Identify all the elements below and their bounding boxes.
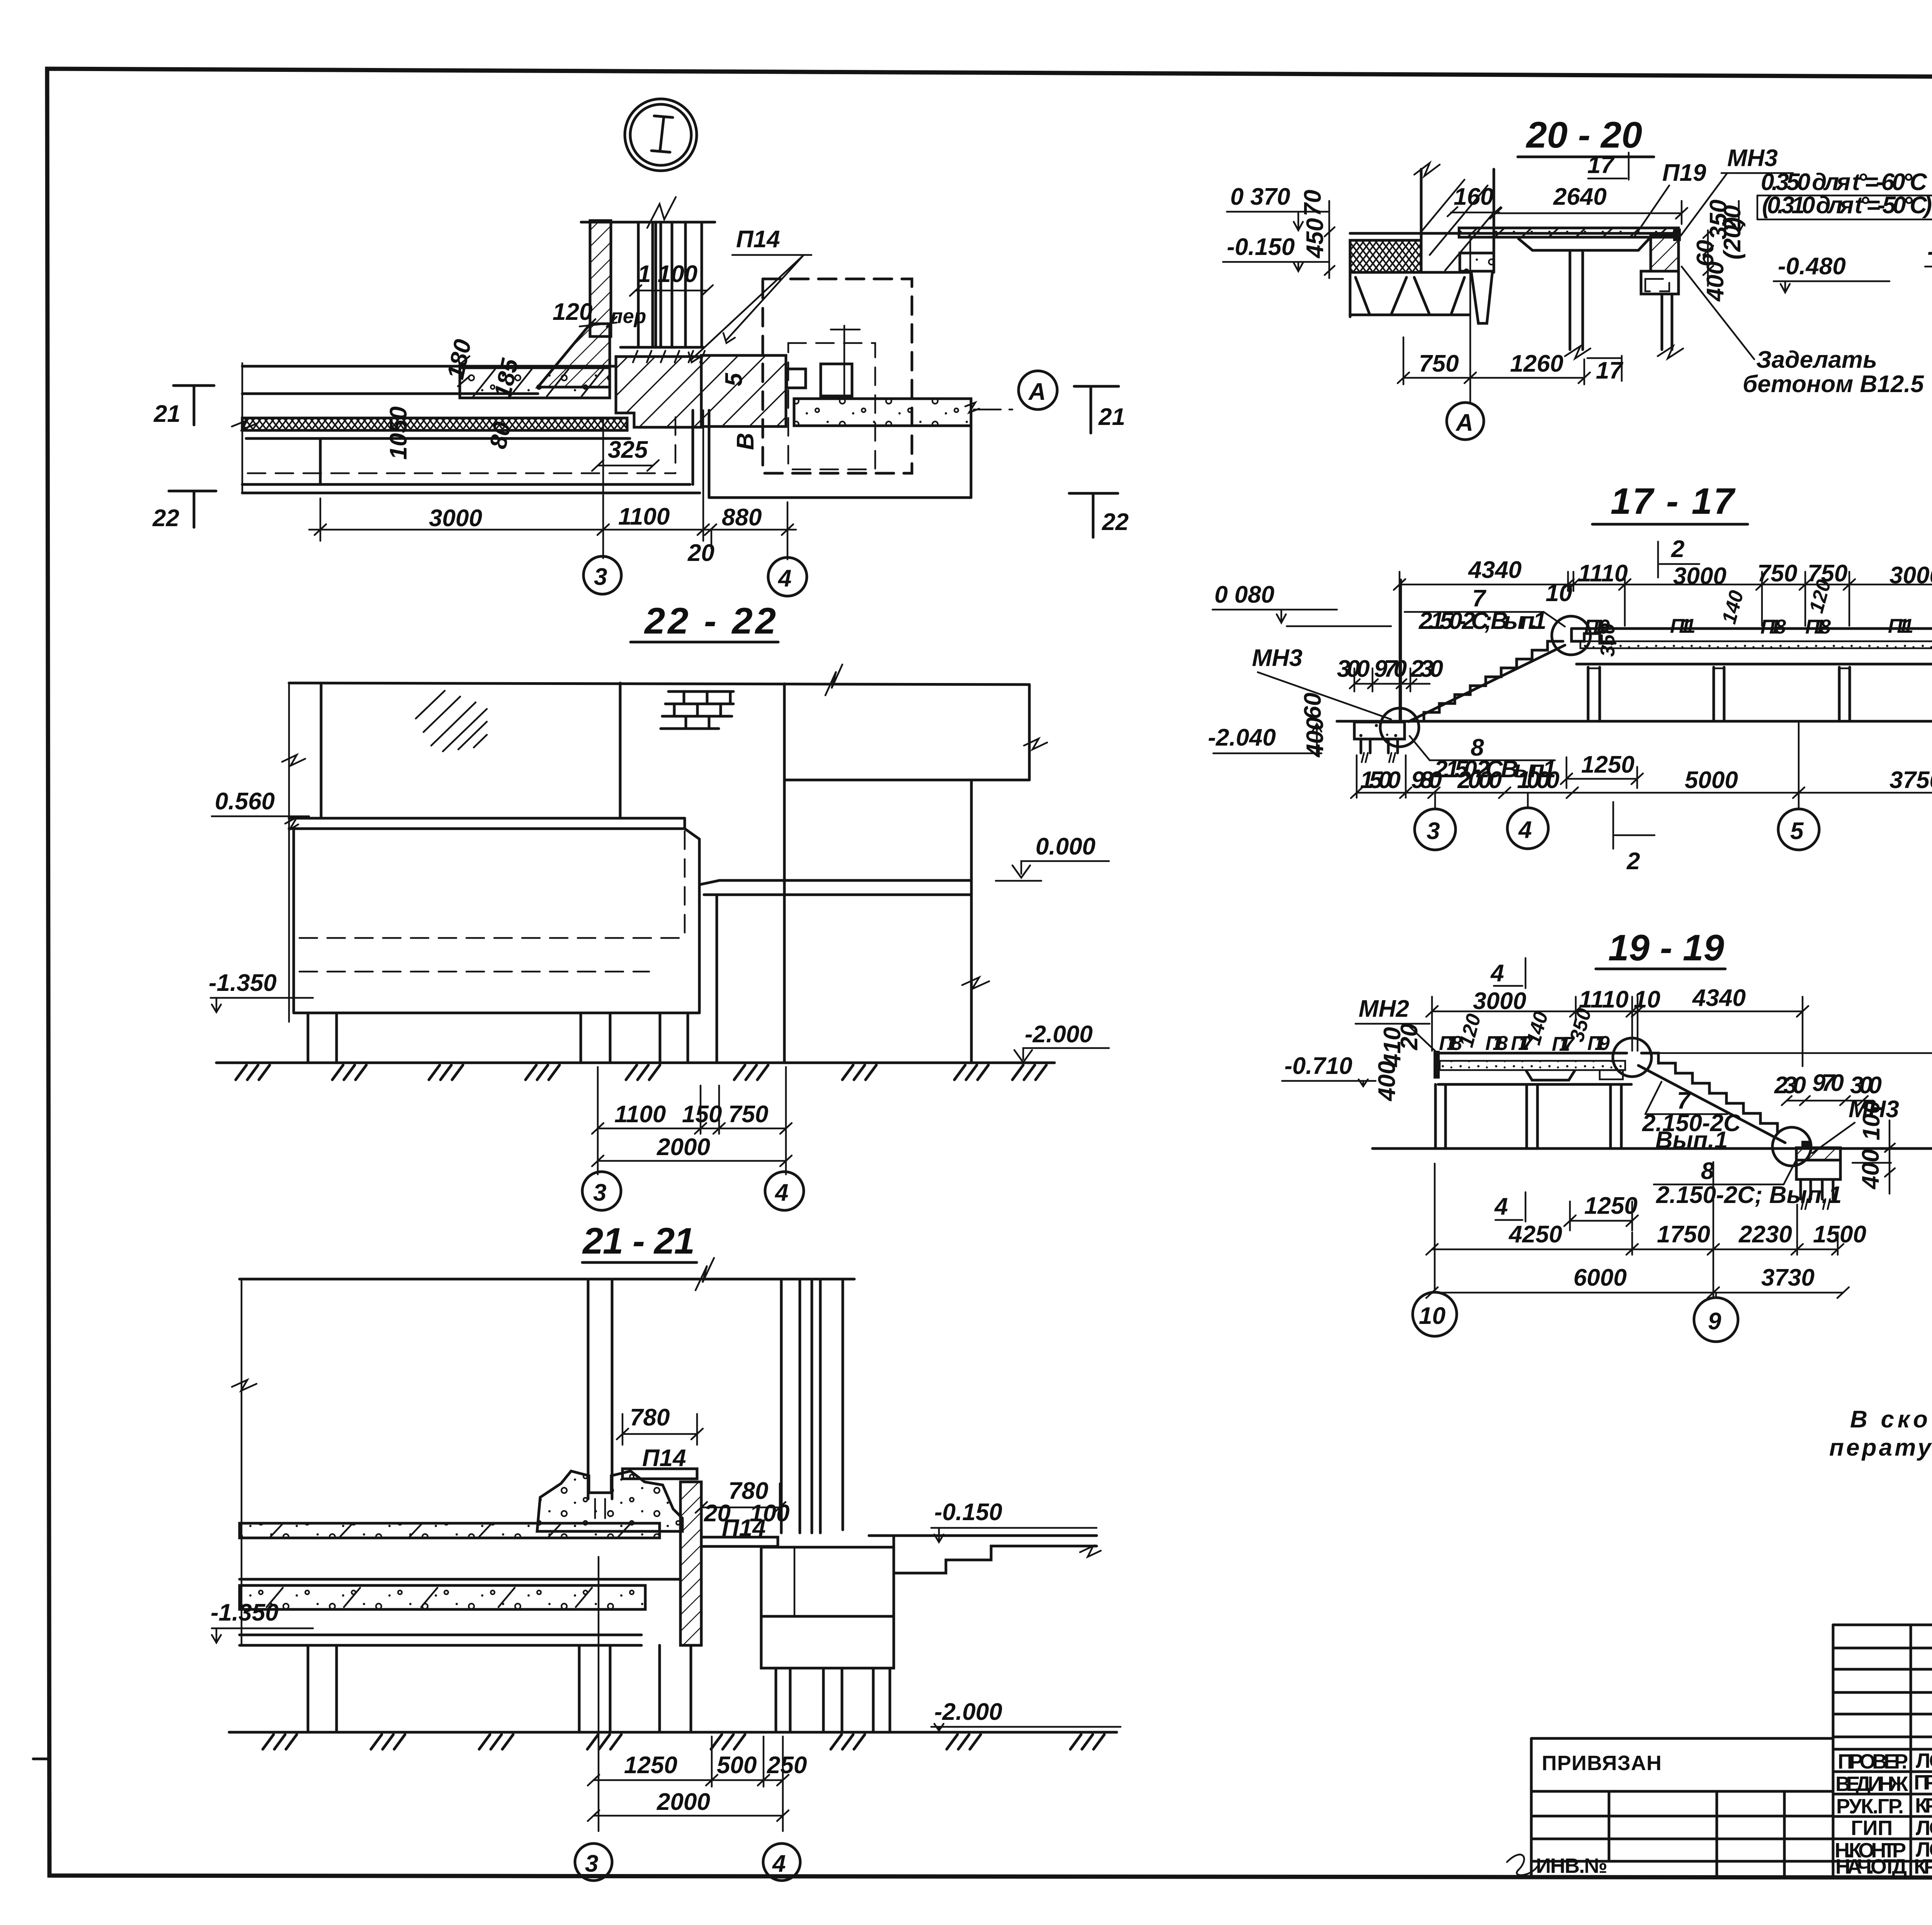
SEC-21-21 — [211, 1220, 1121, 1881]
svg-text:КРАСАВНН: КРАСАВНН — [1914, 1855, 1932, 1878]
svg-text:1110: 1110 — [1578, 560, 1628, 587]
svg-text:-1.350: -1.350 — [209, 970, 277, 996]
wall bars — [581, 221, 715, 224]
svg-text:250: 250 — [767, 1752, 807, 1779]
top wall line — [289, 683, 1029, 685]
P14 plate right — [701, 1537, 778, 1546]
section marks right — [1074, 385, 1119, 388]
SEC-19-19 — [1282, 927, 1932, 1342]
floor strip 1 — [240, 1523, 660, 1538]
lower box (podpolye) — [241, 363, 243, 492]
svg-text:1100: 1100 — [618, 503, 670, 530]
svg-text:1500: 1500 — [1360, 767, 1401, 793]
mid floor line right — [784, 779, 1029, 782]
svg-text:22: 22 — [1102, 509, 1129, 535]
slab — [1434, 1051, 1440, 1079]
svg-text:400: 400 — [1857, 1149, 1884, 1190]
svg-text:МН3: МН3 — [1727, 145, 1778, 172]
svg-text:20 - 20: 20 - 20 — [1526, 114, 1642, 156]
svg-text:4: 4 — [777, 565, 791, 592]
tapered column under wall — [1471, 273, 1492, 323]
svg-text:20: 20 — [687, 540, 714, 566]
wall hatched strip — [590, 221, 611, 336]
svg-text:400: 400 — [1374, 1061, 1400, 1102]
svg-text:3000: 3000 — [1473, 988, 1526, 1014]
svg-text:300: 300 — [1850, 1072, 1882, 1099]
axis circles 3,4 — [583, 556, 621, 594]
top line — [240, 1278, 854, 1281]
svg-text:МН3: МН3 — [1252, 645, 1303, 671]
svg-text:980: 980 — [1411, 767, 1442, 793]
svg-text:КРАСНОВА: КРАСНОВА — [1915, 1794, 1932, 1817]
svg-text:-2.000: -2.000 — [1025, 1021, 1093, 1048]
svg-text:3: 3 — [1427, 818, 1440, 844]
svg-text:бетоном В12.5: бетоном В12.5 — [1743, 371, 1924, 398]
svg-text:21: 21 — [1098, 404, 1125, 430]
posts under box — [776, 1668, 890, 1732]
circles 10, 9 — [1413, 1292, 1457, 1336]
svg-text:ИНВ.№: ИНВ.№ — [1536, 1854, 1607, 1877]
svg-text:П11: П11 — [1670, 615, 1696, 637]
svg-text:Заделать: Заделать — [1756, 347, 1877, 373]
svg-text:1050: 1050 — [385, 406, 412, 460]
wall — [1421, 169, 1494, 272]
svg-text:230: 230 — [1774, 1072, 1806, 1099]
svg-text:17: 17 — [1596, 357, 1623, 384]
svg-text:160: 160 — [1454, 183, 1493, 210]
dim line 3000/1100/880 — [309, 529, 796, 531]
svg-text:П18: П18 — [1805, 616, 1831, 638]
svg-text:0.560: 0.560 — [215, 788, 275, 815]
columns — [1588, 667, 1932, 721]
svg-text:ЛОУЦКЕР: ЛОУЦКЕР — [1916, 1749, 1932, 1772]
svg-text:1110: 1110 — [1579, 986, 1629, 1013]
svg-text:-0.480: -0.480 — [1778, 253, 1846, 280]
big slab — [289, 817, 685, 820]
node I bubble — [625, 99, 697, 171]
P14 plate left — [622, 1469, 697, 1479]
svg-text:П18: П18 — [1485, 1032, 1508, 1055]
dims below — [598, 1067, 786, 1174]
dims 750/1260 — [1403, 337, 1584, 384]
svg-text:1260: 1260 — [1510, 350, 1563, 377]
svg-text:ПРОХОРОВА: ПРОХОРОВА — [1914, 1771, 1932, 1794]
left columns — [308, 1645, 691, 1732]
svg-text:325: 325 — [608, 437, 648, 463]
svg-text:4340: 4340 — [1692, 985, 1746, 1011]
ground — [229, 1731, 1117, 1734]
svg-text:А: А — [1455, 409, 1473, 436]
svg-text:150: 150 — [682, 1101, 722, 1128]
bottom slab — [240, 1644, 641, 1647]
svg-text:21: 21 — [153, 401, 180, 427]
svg-text:РУК.ГР.: РУК.ГР. — [1836, 1795, 1904, 1818]
SEC-18-18 — [1925, 119, 1932, 520]
columns — [1570, 252, 1583, 350]
svg-text:80: 80 — [485, 420, 516, 451]
foundation left — [1354, 722, 1405, 739]
svg-text:0.350 для t°=-60°C: 0.350 для t°=-60°C — [1761, 169, 1927, 195]
svg-text:2: 2 — [1626, 848, 1640, 875]
SEC-20-20 — [1223, 114, 1932, 440]
columns — [308, 1013, 688, 1063]
svg-text:1 100: 1 100 — [638, 261, 697, 287]
right columns — [781, 1279, 820, 1533]
svg-text:880: 880 — [722, 504, 762, 531]
left attach table — [1531, 1737, 1833, 1740]
floor top lines — [242, 365, 614, 368]
svg-text:-2.040: -2.040 — [1208, 724, 1276, 751]
dim row 1 — [1432, 1249, 1838, 1250]
svg-text:пературы t° = -50°C.: пературы t° = -50°C. — [1829, 1434, 1932, 1461]
svg-text:2000: 2000 — [656, 1789, 710, 1815]
svg-text:П14: П14 — [736, 226, 780, 253]
right bearing block — [1651, 235, 1679, 271]
left extension — [241, 1279, 243, 1645]
small bearing boxes — [787, 369, 806, 388]
central column — [588, 1279, 612, 1499]
SEC-NODE-I — [152, 99, 1129, 642]
ground line — [1337, 720, 1932, 723]
svg-text:4: 4 — [1518, 817, 1532, 843]
glass hatch — [416, 691, 487, 751]
strip 2 — [240, 1585, 645, 1609]
svg-text:120: 120 — [1455, 1011, 1485, 1050]
circles 3 4 5 — [1435, 793, 1799, 809]
svg-text:НАЧ.ОТД: НАЧ.ОТД — [1835, 1855, 1907, 1878]
slab top — [1350, 232, 1680, 235]
svg-text:1100: 1100 — [614, 1101, 666, 1128]
svg-text:2230: 2230 — [1738, 1221, 1792, 1248]
svg-text:400: 400 — [1302, 717, 1328, 758]
SEC-22-22 — [209, 664, 1109, 1210]
waterproofing crosshatch strip — [242, 418, 627, 430]
svg-text:(20): (20) — [1719, 217, 1746, 260]
svg-text:3750: 3750 — [1889, 767, 1932, 793]
brick hatch — [661, 692, 733, 729]
svg-text:17: 17 — [1587, 152, 1615, 178]
svg-text:-0.480: -0.480 — [1927, 238, 1932, 265]
svg-text:100: 100 — [1858, 1101, 1885, 1140]
svg-text:2: 2 — [1671, 536, 1684, 562]
svg-text:140: 140 — [1522, 1009, 1553, 1047]
svg-text:2000: 2000 — [1457, 767, 1502, 793]
right concrete strip — [794, 399, 971, 426]
middle signature block — [1833, 1624, 1932, 1626]
svg-text:1000: 1000 — [1517, 767, 1560, 793]
svg-text:750: 750 — [1419, 350, 1459, 377]
svg-text:П19: П19 — [1662, 160, 1706, 186]
ground — [1372, 1147, 1932, 1150]
svg-text:2000: 2000 — [656, 1134, 710, 1160]
dim row 2 — [1432, 1292, 1843, 1294]
svg-text:3: 3 — [594, 564, 607, 590]
svg-text:1250: 1250 — [1581, 751, 1634, 778]
sec mark 2 bottom — [1613, 802, 1655, 849]
svg-text:1250: 1250 — [1584, 1193, 1638, 1219]
section marks 21/22 left — [173, 384, 214, 387]
svg-text:3000: 3000 — [429, 505, 482, 532]
svg-text:В: В — [732, 433, 759, 450]
svg-text:300: 300 — [1337, 656, 1370, 682]
right box structure — [761, 1547, 894, 1668]
TITLE-BLOCK — [1507, 1625, 1932, 1878]
wall verticals — [320, 683, 323, 818]
thin slab plate — [1519, 239, 1649, 250]
svg-text:П18: П18 — [1760, 616, 1786, 638]
svg-text:22: 22 — [152, 505, 179, 532]
svg-text:ПРИВЯЗАН: ПРИВЯЗАН — [1542, 1752, 1662, 1775]
svg-text:0.000: 0.000 — [1036, 833, 1095, 860]
channel step right — [869, 1534, 1097, 1537]
podlivka blob — [537, 1471, 682, 1531]
svg-text:750: 750 — [728, 1101, 768, 1128]
svg-text:3: 3 — [585, 1850, 598, 1877]
svg-text:450: 450 — [1302, 218, 1328, 259]
svg-text:2.150-2С; Вып.1: 2.150-2С; Вып.1 — [1656, 1182, 1842, 1208]
stair — [1613, 1038, 1651, 1077]
svg-text:В скобках даны отметки и ра: В скобках даны отметки и размеры для тем… — [1850, 1406, 1932, 1433]
left extension line — [288, 683, 290, 1022]
svg-text:ПРОВЕР.: ПРОВЕР. — [1838, 1750, 1908, 1773]
svg-text:1750: 1750 — [1657, 1221, 1710, 1248]
svg-text:-1.350: -1.350 — [211, 1599, 279, 1626]
svg-text:0 370: 0 370 — [1230, 183, 1290, 210]
svg-text:-2.000: -2.000 — [934, 1699, 1002, 1725]
svg-text:2.150-2С; Вып.1: 2.150-2С; Вып.1 — [1418, 608, 1546, 634]
svg-text:2640: 2640 — [1553, 183, 1607, 210]
tick left of ИНВ№ — [33, 1758, 49, 1760]
svg-text:350: 350 — [1597, 623, 1619, 657]
svg-text:4: 4 — [1490, 960, 1504, 987]
NOTE-TEXT — [1829, 1406, 1932, 1461]
svg-text:П11: П11 — [1888, 615, 1913, 637]
ribbed slab below wall — [1350, 271, 1469, 274]
svg-text:10: 10 — [1419, 1303, 1446, 1329]
bottom dim row — [1357, 792, 1932, 794]
seat blocks left of plate — [1460, 253, 1494, 271]
svg-text:500: 500 — [717, 1752, 757, 1779]
svg-text:4: 4 — [774, 1179, 788, 1206]
svg-text:5: 5 — [721, 372, 747, 386]
circle A — [1019, 371, 1057, 409]
svg-text:22 - 22: 22 - 22 — [644, 600, 776, 642]
svg-text:17 - 17: 17 - 17 — [1611, 481, 1736, 522]
slab band — [240, 1578, 680, 1581]
dims below — [599, 1557, 783, 1831]
svg-text:1500: 1500 — [1813, 1221, 1866, 1248]
svg-text:4250: 4250 — [1508, 1221, 1562, 1248]
svg-text:5000: 5000 — [1685, 767, 1738, 793]
circles 3,4 — [582, 1172, 621, 1210]
svg-text:3000: 3000 — [1673, 563, 1726, 590]
svg-text:ВЕД.ИНЖ: ВЕД.ИНЖ — [1835, 1772, 1908, 1796]
circle A — [1447, 403, 1484, 440]
axis cross — [831, 326, 860, 399]
svg-text:1250: 1250 — [624, 1752, 677, 1779]
svg-text:70: 70 — [1299, 190, 1326, 216]
svg-text:0 080: 0 080 — [1214, 581, 1274, 608]
SEC-17-17 — [1208, 481, 1932, 875]
svg-text:400: 400 — [1702, 262, 1729, 302]
svg-text:19 - 19: 19 - 19 — [1608, 927, 1724, 968]
svg-text:П19: П19 — [1587, 1032, 1610, 1055]
svg-text:4: 4 — [772, 1850, 786, 1877]
rigel hatched beams — [616, 357, 701, 427]
svg-text:780: 780 — [630, 1404, 670, 1431]
svg-text:140: 140 — [1718, 588, 1748, 626]
svg-text:6000: 6000 — [1573, 1264, 1627, 1291]
wall top break — [647, 197, 676, 228]
concrete screed patch — [460, 368, 610, 398]
svg-text:970: 970 — [1812, 1070, 1844, 1096]
svg-text:ЛОУЦКЕР: ЛОУЦКЕР — [1916, 1816, 1932, 1840]
right hatched wall — [680, 1482, 701, 1645]
svg-text:3730: 3730 — [1761, 1264, 1815, 1291]
pier block — [1641, 271, 1679, 294]
svg-text:-0.710: -0.710 — [1284, 1053, 1352, 1079]
svg-text:21 - 21: 21 - 21 — [582, 1220, 695, 1262]
svg-text:120: 120 — [553, 299, 592, 325]
circles 3,4 — [575, 1843, 612, 1881]
sec mark 2 top — [1658, 542, 1699, 578]
right floor slab — [699, 880, 971, 885]
svg-text:9: 9 — [1708, 1308, 1721, 1335]
svg-text:4340: 4340 — [1468, 557, 1522, 583]
ground line — [216, 1062, 1054, 1064]
svg-text:ГИП: ГИП — [1851, 1816, 1893, 1840]
dashed blocks — [763, 279, 912, 473]
svg-text:МН2: МН2 — [1359, 996, 1409, 1022]
screed strip right of wall — [1459, 228, 1679, 237]
svg-text:230: 230 — [1410, 656, 1443, 682]
stair — [1380, 708, 1419, 747]
columns — [1435, 1084, 1621, 1149]
right lower outline — [709, 496, 971, 499]
svg-text:-0.150: -0.150 — [934, 1499, 1002, 1526]
svg-text:4: 4 — [1494, 1193, 1508, 1220]
svg-text:3: 3 — [593, 1179, 606, 1206]
slab right — [1571, 627, 1932, 630]
insulation crosshatch — [1350, 240, 1421, 272]
svg-text:А: А — [1028, 379, 1046, 405]
foundation — [1796, 1148, 1840, 1160]
svg-text:5: 5 — [1790, 818, 1804, 844]
svg-text:60: 60 — [1299, 693, 1326, 719]
svg-text:-0.150: -0.150 — [1227, 234, 1295, 260]
